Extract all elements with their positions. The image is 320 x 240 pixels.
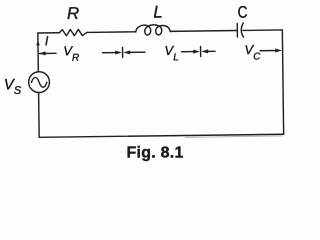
svg-text:R: R: [67, 4, 80, 23]
inductor L: [136, 25, 171, 35]
tick V_L / V_C boundary: [200, 46, 202, 56]
svg-text:C: C: [237, 3, 247, 21]
dimension arrow V_C right: [260, 48, 282, 52]
svg-text:VL: VL: [164, 43, 178, 64]
svg-text:VR: VR: [63, 43, 79, 64]
dimension arrow V_L right: [182, 49, 200, 53]
svg-text:Fig. 8.1: Fig. 8.1: [127, 145, 184, 162]
wire bottom scan ghost: [186, 136, 283, 138]
wire top-left segment: [38, 32, 59, 34]
dimension arrow V_L left: [123, 50, 145, 54]
svg-text:VS: VS: [4, 76, 22, 97]
source V_S: [29, 72, 50, 93]
svg-text:VC: VC: [244, 42, 261, 63]
current arrow I: [36, 41, 40, 46]
wire inductor-to-capacitor: [171, 30, 238, 33]
wire bottom: [39, 134, 283, 137]
wire right side: [282, 30, 283, 134]
dimension arrow V_R left: [39, 51, 56, 55]
wire capacitor-to-corner: [243, 29, 282, 31]
capacitor C: [237, 23, 243, 37]
wire left upper: [37, 33, 39, 72]
tick V_R / V_L boundary: [122, 47, 124, 57]
wire left lower (source to corner): [38, 93, 41, 138]
dimension arrow V_C left: [201, 49, 215, 53]
svg-text:I: I: [45, 33, 49, 48]
wire resistor-to-inductor: [87, 31, 135, 34]
resistor R: [59, 29, 87, 36]
svg-text:L: L: [153, 2, 163, 21]
dimension arrow V_R right: [103, 50, 122, 54]
